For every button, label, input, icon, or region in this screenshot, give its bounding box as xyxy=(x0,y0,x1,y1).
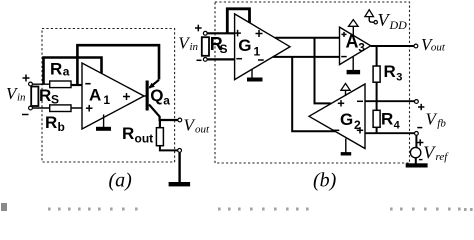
svg-text:in: in xyxy=(17,92,26,104)
A1 plus sign lower xyxy=(86,105,93,112)
wire G2 plus input to Vfb- node xyxy=(365,132,415,134)
svg-text:1: 1 xyxy=(103,93,110,107)
svg-text:in: in xyxy=(190,41,199,53)
svg-text:(b): (b) xyxy=(313,170,337,192)
G2 plus sign bottom-right xyxy=(357,127,363,133)
transistor Qa base wire xyxy=(143,95,146,97)
svg-text:a: a xyxy=(63,64,70,78)
svg-text:DD: DD xyxy=(389,18,408,32)
svg-text:R: R xyxy=(45,113,57,132)
terminal node Vout (a) xyxy=(178,118,182,122)
svg-text:G: G xyxy=(340,110,353,129)
svg-text:G: G xyxy=(238,36,251,55)
wire G2 minus input to Vfb+ node xyxy=(365,100,415,102)
wire collector to Vout node xyxy=(160,116,179,120)
label A3 xyxy=(346,32,366,55)
terminal node top (a) xyxy=(29,82,33,86)
ground under G1 xyxy=(247,69,263,82)
transistor Qa emitter lead with arrow (PNP) xyxy=(149,80,160,89)
resistor R_S (a) body xyxy=(31,87,38,107)
label Vout (a) xyxy=(184,115,211,135)
terminal node bottom (b) xyxy=(203,58,207,62)
resistor R3 stem top xyxy=(376,46,378,66)
svg-text:out: out xyxy=(135,132,154,146)
dashed boundary box (b) xyxy=(215,2,410,163)
G2 supply arrow xyxy=(341,83,350,95)
ground under A1 xyxy=(96,115,111,131)
resistor R_b body xyxy=(50,105,71,112)
svg-text:(a): (a) xyxy=(109,169,133,191)
label Rout xyxy=(122,124,153,146)
label R_a xyxy=(50,60,70,79)
wire G1 bottom output to A3 minus xyxy=(273,56,340,58)
wire junction down to G2 bottom edge xyxy=(292,57,335,131)
G2 minus sign bottom-left xyxy=(333,129,339,131)
op-amp A1 triangle xyxy=(82,63,144,129)
label V_in (b) xyxy=(178,34,198,53)
label Vfb xyxy=(426,109,447,129)
wire feedback from Qa emitter to inverting node xyxy=(77,45,159,86)
terminal node ground (a) xyxy=(178,149,182,153)
A3 plus sign xyxy=(342,32,347,37)
source V_in (a) minus sign xyxy=(22,114,29,116)
terminal node top (b) xyxy=(203,31,207,35)
svg-text:R: R xyxy=(50,60,62,79)
ground bar under Vref xyxy=(406,163,428,167)
svg-text:b: b xyxy=(58,120,65,134)
G1 plus sign input xyxy=(234,30,241,37)
label G1 xyxy=(238,36,260,58)
label R3 xyxy=(384,62,403,84)
terminal node Vfb- xyxy=(415,132,419,136)
resistor R4 stem bottom xyxy=(376,127,378,133)
label Qa xyxy=(150,86,170,108)
label R_S (b) xyxy=(210,34,228,56)
resistor R4 body xyxy=(373,110,380,127)
label R_b xyxy=(45,113,65,134)
label VDD xyxy=(378,10,408,32)
G1 minus sign sense xyxy=(258,59,264,61)
wire Vin- to G1 xyxy=(207,58,235,60)
resistor R_S (b) body xyxy=(202,37,209,56)
svg-text:S: S xyxy=(220,42,228,56)
resistor Rout body xyxy=(156,128,163,146)
terminal node Vout (b) xyxy=(414,44,418,48)
dashed boundary box (a) xyxy=(42,29,175,163)
A3 supply arrow xyxy=(349,20,359,35)
resistor R3 body xyxy=(373,66,380,82)
label Vout (b) xyxy=(421,35,446,54)
transistor Qa collector lead xyxy=(149,105,160,117)
G1 minus sign input xyxy=(236,58,242,60)
wire bottom input node (a) xyxy=(32,107,82,109)
label R_S (a) xyxy=(39,86,59,107)
wire feedback loop to G1 top edge xyxy=(227,9,249,34)
svg-text:R: R xyxy=(39,86,51,105)
Vfb plus sign xyxy=(418,104,424,110)
wire Vfb- node down to Vref xyxy=(415,135,417,147)
svg-text:R: R xyxy=(381,110,393,129)
source V_in (b) minus sign xyxy=(197,59,202,61)
source V_in (a) plus sign xyxy=(23,75,30,82)
VDD symbol arrow with circle xyxy=(365,10,378,24)
resistor R3 stem bottom xyxy=(376,82,378,101)
svg-text:A: A xyxy=(89,85,101,104)
G2 minus sign top-right xyxy=(357,100,363,102)
terminal node Vfb+ xyxy=(415,100,419,104)
Vref plus sign xyxy=(417,139,423,145)
transistor Qa base bar xyxy=(146,81,149,111)
svg-text:fb: fb xyxy=(437,117,446,129)
wire Vref to ground xyxy=(415,158,417,164)
Vref minus sign xyxy=(419,159,423,161)
svg-text:a: a xyxy=(163,94,170,108)
amplifier G1 triangle xyxy=(235,14,290,80)
svg-text:Q: Q xyxy=(150,86,163,105)
label V_in (a) xyxy=(6,84,26,104)
wire G1 top output to A3 plus xyxy=(275,37,339,39)
svg-text:ref: ref xyxy=(436,151,450,163)
ground under A3 xyxy=(347,57,361,74)
resistor R4 stem top xyxy=(376,101,378,110)
source Vref circle xyxy=(410,147,420,157)
A3 minus sign xyxy=(341,56,347,58)
A1 minus sign xyxy=(85,83,90,85)
svg-text:2: 2 xyxy=(354,118,361,132)
wire ground stem (a) xyxy=(178,152,180,182)
svg-text:1: 1 xyxy=(254,44,261,58)
label G2 xyxy=(340,110,361,132)
svg-text:R: R xyxy=(122,124,134,143)
svg-text:out: out xyxy=(431,42,446,54)
terminal node bottom (a) xyxy=(29,106,33,110)
wire top input node (a) xyxy=(32,83,71,85)
svg-text:4: 4 xyxy=(394,119,401,131)
A1 plus sign near apex xyxy=(123,93,130,100)
resistor R_a body xyxy=(50,81,71,88)
svg-text:3: 3 xyxy=(358,40,365,54)
G2 plus sign top-left xyxy=(338,100,344,106)
wire Rout bottom to ground node xyxy=(160,146,178,151)
wire A3 output to Vout (b) xyxy=(371,45,414,47)
wire junction down to G2 top edge xyxy=(315,38,331,104)
ground under G2 xyxy=(341,139,352,156)
label A1 xyxy=(89,85,110,107)
amplifier G2 triangle (points left) xyxy=(309,84,365,149)
source V_in (b) plus sign xyxy=(195,25,202,32)
wire Vout node to Rout xyxy=(159,120,161,128)
label R4 xyxy=(381,110,401,132)
label Vref xyxy=(423,142,449,163)
svg-text:A: A xyxy=(346,32,359,52)
svg-text:R: R xyxy=(384,62,396,81)
wire R_a to A1 inverting input xyxy=(71,84,82,86)
Vfb minus sign xyxy=(417,127,422,129)
wire sense branch to A1 top edge xyxy=(44,58,102,85)
wire Vin+ to G1 xyxy=(207,32,235,34)
op-amp A3 triangle xyxy=(340,27,371,65)
svg-text:out: out xyxy=(195,124,210,136)
G1 plus sign sense xyxy=(256,30,263,37)
faint caption remnants at bottom edge xyxy=(1,203,473,211)
svg-text:3: 3 xyxy=(396,72,402,84)
ground bar (a) output xyxy=(169,182,191,186)
